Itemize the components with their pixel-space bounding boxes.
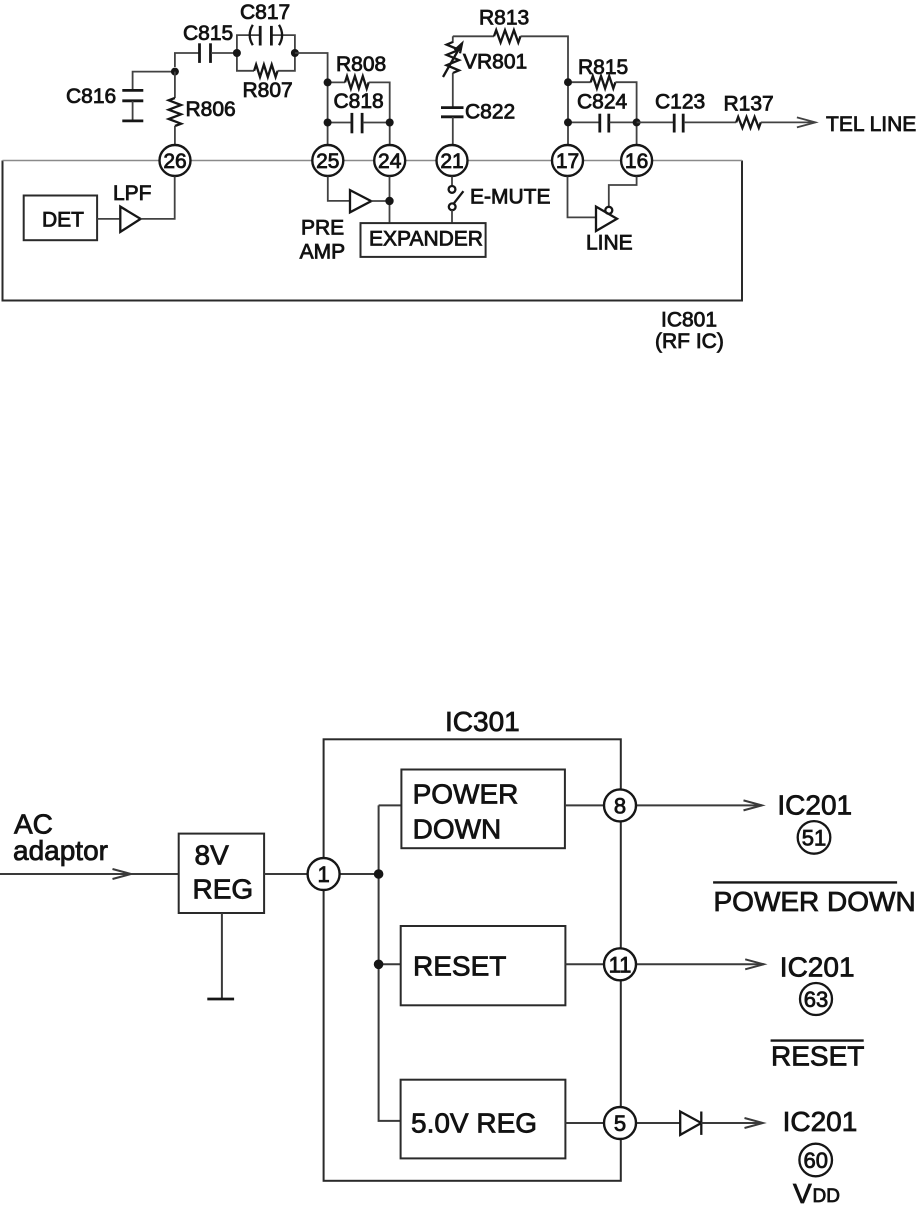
- svg-text:REG: REG: [193, 874, 254, 905]
- wire pin 24 to EXPANDER: [389, 177, 391, 224]
- op-amp LPF: [120, 207, 140, 232]
- svg-text:DOWN: DOWN: [413, 814, 502, 845]
- wire VR801 to C822: [452, 73, 454, 107]
- node C824 left: [564, 118, 572, 126]
- wire 5.0V REG to pin 5: [565, 1122, 604, 1124]
- op-amp LINE: [596, 207, 617, 231]
- wire pin 17 to LINE amp: [568, 177, 596, 218]
- wire C816 branch: [133, 72, 175, 90]
- wire junction rail: [379, 805, 401, 1121]
- svg-text:5.0V REG: 5.0V REG: [411, 1108, 537, 1139]
- resistor R813: [453, 35, 494, 37]
- svg-text:V: V: [793, 1178, 812, 1209]
- svg-text:8: 8: [614, 793, 626, 818]
- node C817 left: [233, 49, 241, 57]
- svg-text:R815: R815: [578, 56, 628, 79]
- svg-text:TEL LINE: TEL LINE: [826, 113, 916, 136]
- svg-text:25: 25: [316, 150, 339, 173]
- wire PRE AMP to pin 24: [371, 200, 389, 202]
- pin 1 IC301: [308, 858, 340, 890]
- svg-text:E-MUTE: E-MUTE: [470, 186, 551, 209]
- svg-text:5: 5: [614, 1111, 626, 1136]
- wire pin 8 to IC201: [636, 804, 762, 806]
- block 8V REG: [179, 834, 264, 913]
- svg-text:IC201: IC201: [777, 790, 852, 821]
- wire LPF to pin 26: [141, 177, 175, 219]
- svg-text:IC201: IC201: [780, 951, 855, 982]
- capacitor C817: [237, 35, 260, 53]
- svg-text:C123: C123: [655, 91, 705, 114]
- node R808 left: [324, 78, 332, 86]
- svg-text:R813: R813: [479, 7, 529, 30]
- node junction RESET rail: [374, 960, 384, 970]
- svg-text:21: 21: [440, 150, 463, 173]
- resistor R807: [237, 53, 254, 71]
- svg-text:LINE: LINE: [586, 232, 633, 255]
- svg-text:DD: DD: [813, 1186, 840, 1207]
- wire pin 16 to LINE amp input: [609, 177, 637, 208]
- svg-text:IC201: IC201: [783, 1106, 858, 1137]
- resistor R815: [568, 81, 591, 83]
- svg-text:R808: R808: [336, 53, 386, 76]
- resistor R806: [174, 72, 176, 98]
- variable resistor VR801: [452, 36, 454, 43]
- wire C815 to C817 node: [211, 52, 237, 54]
- pin 11 IC301: [604, 948, 636, 980]
- svg-text:EXPANDER: EXPANDER: [369, 228, 483, 251]
- svg-text:60: 60: [803, 1148, 827, 1173]
- wire pin 1 to junction: [340, 873, 379, 875]
- pin 5 IC301: [604, 1107, 636, 1139]
- svg-text:R806: R806: [186, 98, 236, 121]
- svg-text:IC801: IC801: [661, 309, 717, 332]
- capacitor C822: [441, 106, 464, 109]
- svg-text:adaptor: adaptor: [13, 835, 108, 866]
- svg-text:RESET: RESET: [771, 1041, 864, 1072]
- ground: [221, 913, 223, 999]
- svg-text:63: 63: [804, 987, 828, 1012]
- svg-text:DET: DET: [42, 209, 84, 232]
- wire C815 left: [175, 53, 199, 67]
- capacitor C815: [198, 43, 201, 63]
- capacitor C824: [568, 121, 599, 123]
- node junction C815/C816/R806: [171, 68, 179, 76]
- wire to TEL LINE: [761, 121, 816, 123]
- capacitor C123: [637, 121, 674, 123]
- svg-text:(RF IC): (RF IC): [655, 330, 724, 353]
- block POWER DOWN: [401, 770, 565, 849]
- node PRE AMP output: [385, 197, 393, 205]
- wire AC adaptor input: [0, 873, 179, 875]
- wire POWER DOWN to pin 8: [565, 804, 604, 806]
- wire pin 5 to diode: [636, 1122, 680, 1124]
- wire pin 11 to IC201: [636, 963, 764, 965]
- pin 24 IC801: [374, 145, 405, 176]
- wire diode to IC201: [701, 1122, 763, 1124]
- svg-text:17: 17: [556, 150, 579, 173]
- svg-text:C824: C824: [577, 91, 628, 114]
- net POWER DOWN: [713, 881, 897, 883]
- svg-text:RESET: RESET: [413, 951, 506, 982]
- svg-text:AMP: AMP: [300, 241, 346, 264]
- svg-text:11: 11: [609, 952, 632, 977]
- node C818 left: [324, 119, 332, 127]
- wire 8V REG to pin 1: [264, 873, 308, 875]
- capacitor C818: [328, 122, 352, 124]
- node C817 right: [291, 49, 299, 57]
- svg-text:51: 51: [802, 825, 826, 850]
- resistor R137: [736, 117, 761, 128]
- svg-text:C815: C815: [183, 22, 233, 45]
- node C818 right: [386, 119, 394, 127]
- net RESET: [771, 1039, 864, 1041]
- svg-text:1: 1: [317, 862, 329, 887]
- svg-text:24: 24: [378, 150, 402, 173]
- capacitor C816: [122, 89, 143, 92]
- wire C817 node to pin 25: [295, 53, 328, 146]
- svg-text:IC301: IC301: [445, 706, 520, 737]
- svg-text:VR801: VR801: [463, 51, 527, 74]
- pin 26 IC801: [160, 145, 191, 176]
- node junction pin1 rail: [374, 869, 384, 879]
- pin 8 IC301: [604, 789, 636, 821]
- svg-text:C817: C817: [240, 1, 290, 24]
- block EXPANDER: [361, 223, 486, 257]
- pin 17 IC801: [552, 145, 583, 176]
- wire DET to LPF: [97, 218, 119, 220]
- IC801 box: [3, 161, 743, 301]
- switch E-MUTE: [451, 177, 453, 186]
- wire RESET to pin 11: [565, 963, 604, 965]
- svg-text:R807: R807: [243, 79, 293, 102]
- svg-text:POWER: POWER: [413, 779, 519, 810]
- svg-text:POWER DOWN: POWER DOWN: [714, 886, 916, 917]
- node C824 right: [633, 118, 641, 126]
- svg-text:LPF: LPF: [113, 182, 152, 205]
- block RESET: [401, 926, 566, 1005]
- svg-text:R137: R137: [724, 93, 774, 116]
- block 5.0V REG: [401, 1080, 566, 1159]
- diode D: [680, 1112, 701, 1135]
- pin 16 IC801: [621, 145, 652, 176]
- pin 21 IC801: [437, 145, 468, 176]
- svg-text:C816: C816: [66, 85, 116, 108]
- resistor R808: [328, 81, 345, 83]
- svg-text:8V: 8V: [195, 840, 230, 871]
- svg-text:C822: C822: [465, 101, 515, 124]
- wire pin 25 to PRE AMP: [328, 177, 349, 201]
- svg-text:26: 26: [163, 150, 186, 173]
- wire pin row: [3, 160, 743, 162]
- pin 25 IC801: [312, 145, 343, 176]
- wire to RESET: [379, 963, 401, 965]
- svg-text:PRE: PRE: [301, 217, 344, 240]
- block DET: [24, 196, 97, 241]
- svg-text:C818: C818: [334, 90, 384, 113]
- svg-text:16: 16: [625, 150, 648, 173]
- IC301 box: [324, 739, 621, 1181]
- node R815 left: [564, 78, 572, 86]
- op-amp PRE AMP: [350, 190, 371, 212]
- wire to POWER DOWN: [379, 804, 402, 806]
